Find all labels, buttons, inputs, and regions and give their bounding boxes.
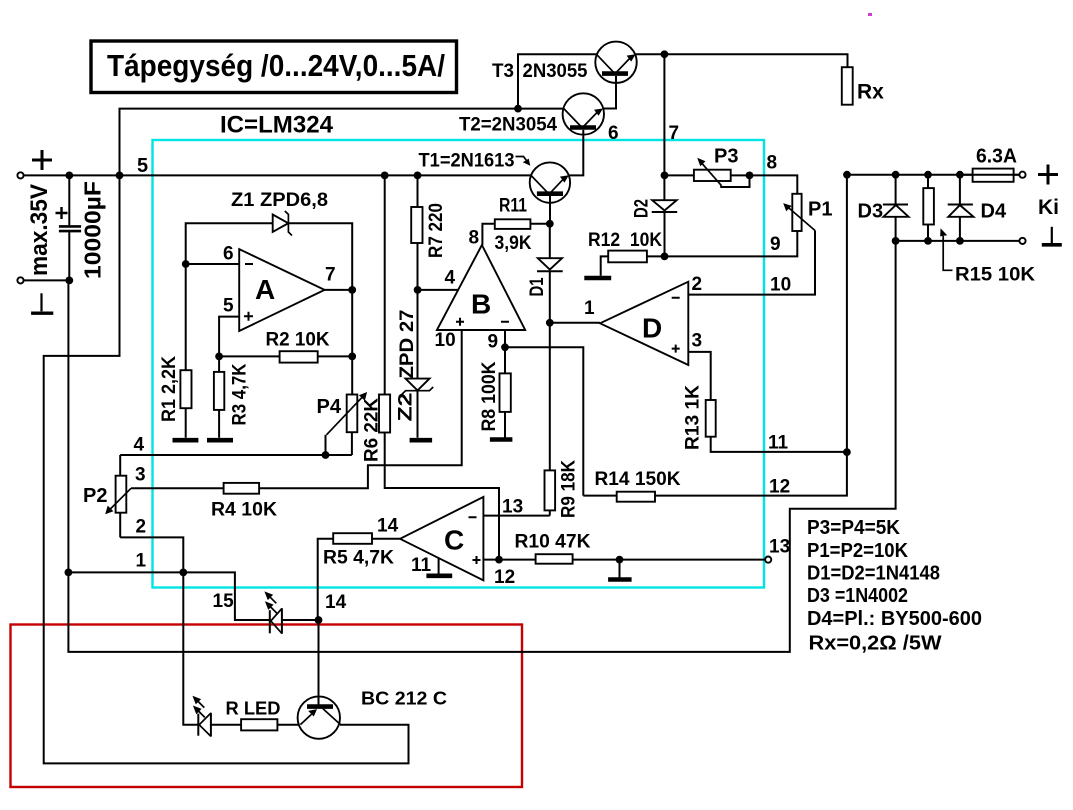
svg-text:R14 150K: R14 150K (595, 469, 681, 490)
svg-text:R1 2,2K: R1 2,2K (159, 356, 180, 422)
resistor R15 10K (923, 188, 934, 224)
svg-text:2: 2 (136, 517, 147, 538)
resistor R1 2,2K (180, 370, 191, 408)
svg-text:P1: P1 (808, 199, 832, 221)
svg-text:Tápegység /0...24V,0...5A/: Tápegység /0...24V,0...5A/ (107, 48, 445, 83)
diode D1 (538, 258, 562, 269)
wire: P2 bottom lead (119, 513, 121, 538)
svg-text:R11: R11 (499, 196, 527, 217)
svg-text:13: 13 (502, 497, 523, 518)
svg-text:5: 5 (223, 296, 234, 317)
junction (381, 172, 389, 180)
svg-text:T3: T3 (492, 61, 514, 82)
svg-text:R10 47K: R10 47K (515, 532, 591, 553)
svg-text:C: C (444, 525, 464, 556)
svg-text:R8 100K: R8 100K (479, 361, 500, 431)
wire: D3 top lead (895, 175, 897, 205)
wire: op-amp C output pin 14 through R5 down to node 14 (318, 539, 400, 620)
wire: pin 9 net from op-amp B minus input down to R14 line (505, 330, 583, 496)
svg-text:Z1 ZPD6,8: Z1 ZPD6,8 (231, 190, 328, 211)
svg-text:R15 10K: R15 10K (955, 265, 1035, 286)
resistor R10 47K (536, 554, 573, 564)
ground bar R10 (608, 577, 632, 582)
potentiometer P4 body (347, 395, 358, 433)
wire: R11 left lead to op-amp B output pin 8 (482, 224, 494, 245)
svg-text:D4: D4 (981, 201, 1007, 223)
fuse 6.3A (973, 169, 1014, 182)
junction (892, 237, 900, 245)
svg-text:P3: P3 (714, 146, 738, 168)
LED D6 (R LED branch) (197, 714, 199, 736)
transistor T3 2N3055 (595, 42, 636, 83)
output + symbol (1038, 165, 1058, 185)
input - terminal ground (40, 293, 42, 311)
svg-text:R6 22K: R6 22K (362, 398, 383, 462)
svg-text:8: 8 (469, 228, 480, 249)
svg-text:12: 12 (494, 567, 515, 588)
wire: Z1 feedback loop (186, 223, 353, 290)
wire: D4 leads (959, 175, 961, 241)
diode D2 (652, 200, 677, 210)
ground bar R3 (207, 438, 233, 443)
svg-text:7: 7 (325, 265, 336, 286)
svg-text:R3 4,7K: R3 4,7K (230, 363, 251, 425)
wire: pin1 node down through R9 to pin13 line (549, 323, 551, 516)
transistor BC 212 C (298, 696, 340, 738)
wire: R10 ground stub (619, 560, 621, 578)
LED D5 arrows (268, 595, 276, 603)
wire: capacitor column (68, 175, 70, 280)
junction (843, 448, 851, 456)
junction (182, 260, 190, 268)
wire: R LED to BC212 emitter (277, 724, 299, 726)
junction (546, 220, 554, 228)
resistor R2 10K (280, 351, 318, 362)
wire: op-amp A output pin 7 to P4 column (325, 290, 353, 395)
wire: R11 right lead (531, 223, 550, 225)
output ground symbol (1051, 227, 1053, 244)
svg-text:7: 7 (669, 123, 680, 144)
svg-text:R9 18K: R9 18K (559, 460, 580, 518)
junction (514, 105, 522, 113)
wire: P1 bottom lead, pin9 line to R12/D2 node (647, 231, 797, 256)
wire: R1 leads (185, 264, 187, 438)
junction (546, 319, 554, 327)
svg-text:R13 1K: R13 1K (683, 385, 704, 450)
svg-text:6: 6 (608, 123, 619, 144)
svg-text:Z2: Z2 (396, 393, 417, 422)
svg-text:3: 3 (135, 465, 146, 486)
junction (616, 556, 624, 564)
svg-text:2N3055: 2N3055 (523, 61, 588, 82)
wire: P3 wiper hook (721, 175, 749, 187)
junction (215, 353, 223, 361)
wire: pin 2 line from P2 bottom down to LED row (120, 537, 198, 724)
R15 leader arrow (943, 236, 952, 270)
junction (179, 569, 187, 577)
wire: R8 leads (504, 347, 506, 437)
transistor T1 2N1613 (530, 162, 570, 202)
junction (348, 286, 356, 294)
wire: T3 base riser and collector rail to Rx (518, 54, 848, 108)
op-amp B (437, 245, 525, 330)
wire: P3 left lead (665, 174, 694, 176)
zener Z1 ZPD6,8 (273, 215, 289, 232)
wire: pin 13 line from op-amp C (483, 515, 549, 517)
svg-text:9: 9 (488, 332, 499, 353)
wire: op-amp A minus input pin 6 (186, 263, 240, 265)
svg-text:1: 1 (136, 551, 147, 572)
wire: pin 4 line (120, 454, 352, 456)
ground bar pin 11 (426, 573, 452, 578)
resistor R11 3,9K (495, 219, 531, 229)
wire: T3 emitter to T2 collector (603, 74, 616, 109)
potentiometer P3 body (694, 170, 731, 181)
junction (501, 343, 509, 351)
current-limit / LED enclosure box (red) (11, 625, 523, 788)
junction (65, 569, 73, 577)
svg-text:1: 1 (584, 298, 595, 319)
wire: main positive bus from input through T1 base up to T2 emitter (22, 128, 583, 175)
resistor R8 100K (500, 373, 511, 412)
svg-text:11: 11 (768, 433, 789, 454)
wire: R2 line (219, 355, 352, 357)
svg-text:B: B (471, 289, 491, 320)
wire: ground return loop D3 bottom to capacitor negative (68, 217, 895, 652)
svg-text:Rx: Rx (857, 81, 884, 104)
LED D6 arrows (196, 700, 204, 708)
wire: pin12 line through R14 to output sense column (583, 175, 847, 496)
stray red mark (868, 13, 872, 16)
wire: op-amp C pin 11 ground stub (438, 559, 440, 574)
junction (315, 616, 323, 624)
resistor R LED (241, 719, 277, 730)
resistor R3 4,7K (214, 372, 224, 410)
potentiometer P1 body (792, 194, 801, 231)
LED D5 (opto path) (269, 610, 271, 633)
pin 13 terminal (765, 557, 771, 563)
svg-text:D3 =1N4002: D3 =1N4002 (807, 584, 908, 607)
wire: op-amp A plus input pin 5 (219, 317, 239, 357)
ground bar R8 (490, 437, 513, 442)
svg-text:P1=P2=10K: P1=P2=10K (807, 539, 908, 562)
zener Z2 ZPD27 (406, 379, 430, 391)
wire: P3 right lead (731, 174, 750, 176)
ground bar R12 (584, 276, 611, 281)
svg-text:R4 10K: R4 10K (211, 500, 277, 521)
resistor R12 10K (608, 251, 647, 263)
svg-text:3: 3 (692, 331, 703, 352)
input - terminal (17, 277, 23, 283)
junction (414, 286, 422, 294)
svg-text:5: 5 (137, 155, 148, 177)
svg-text:8: 8 (767, 153, 778, 174)
svg-text:ZPD 27: ZPD 27 (397, 310, 418, 379)
svg-text:11: 11 (411, 555, 432, 576)
svg-text:P3=P4=5K: P3=P4=5K (807, 516, 900, 539)
svg-text:D1=D2=1N4148: D1=D2=1N4148 (807, 562, 940, 585)
svg-text:D2: D2 (632, 199, 653, 218)
wire: D1 bottom to pin1 node and op-amp D input (550, 272, 600, 323)
capacitor 10000uF plates (59, 225, 81, 228)
svg-text:6.3A: 6.3A (976, 146, 1017, 168)
svg-text:A: A (255, 274, 275, 305)
junction (661, 50, 669, 58)
resistor R5 4,7K (333, 533, 372, 544)
svg-text:3,9K: 3,9K (495, 233, 532, 254)
diode D4 BY500-600 (948, 204, 973, 206)
junction (843, 171, 851, 179)
svg-text:9: 9 (770, 234, 781, 255)
wire: left rail down to bottom rail and BC212 collector (44, 175, 409, 763)
wire: op-amp D minus input pin2 to P1 wiper (688, 231, 815, 295)
resistor R6 22K (379, 395, 390, 433)
junction (956, 171, 964, 179)
potentiometer P1 wiper (786, 206, 815, 231)
wire: pin 4 power stub to op-amp B edge (418, 289, 458, 291)
resistor R14 150K (617, 492, 655, 502)
wire: pin 12 line from op-amp C through R10 to terminal 13 (483, 559, 765, 561)
svg-text:12: 12 (769, 477, 790, 498)
svg-text:10: 10 (770, 275, 791, 296)
wire: node 7 column through D2 (663, 54, 665, 256)
wire: D6 to R LED (211, 724, 241, 726)
junction (495, 556, 503, 564)
junction (65, 277, 73, 285)
svg-text:R5 4,7K: R5 4,7K (323, 548, 394, 569)
wire: P2 top lead (119, 455, 121, 476)
wire: D1 top lead (549, 224, 551, 258)
svg-text:IC=LM324: IC=LM324 (220, 112, 334, 139)
svg-text:14: 14 (377, 516, 399, 537)
svg-text:2: 2 (692, 274, 703, 295)
junction (892, 171, 900, 179)
potentiometer P2 wiper (109, 488, 132, 511)
title box (91, 41, 457, 93)
svg-text:R12 10K: R12 10K (588, 230, 662, 251)
wire: R3 leads (218, 356, 220, 437)
resistor R4 10K (224, 483, 260, 494)
junction (924, 171, 932, 179)
svg-text:T1=2N1613: T1=2N1613 (419, 151, 515, 172)
resistor R7 220 (411, 207, 422, 243)
svg-text:BC 212 C: BC 212 C (361, 689, 447, 709)
svg-text:R2 10K: R2 10K (266, 330, 330, 351)
svg-text:6: 6 (223, 244, 234, 265)
junction (661, 253, 669, 261)
svg-text:P2: P2 (83, 485, 107, 507)
wire: P4 wiper drop to pin4 line (325, 435, 327, 455)
potentiometer P2 body (116, 476, 127, 513)
junction (322, 451, 330, 459)
junction (116, 172, 124, 180)
wire: D5 to node 14 (282, 619, 319, 621)
LM324 IC boundary box (cyan) (153, 140, 765, 588)
svg-text:Rx=0,2Ω /5W: Rx=0,2Ω /5W (809, 632, 943, 655)
wire: R7 column with zener Z2 to ground (417, 175, 419, 437)
junction (348, 353, 356, 361)
resistor R9 18K (545, 470, 556, 510)
svg-text:13: 13 (769, 537, 790, 558)
T1 label arrow (516, 157, 528, 163)
ground bar Z2 (410, 438, 433, 443)
wire: pin 3 line through R4 up to op-amp B plus input pin 10 (131, 330, 462, 488)
resistor Rx (842, 67, 853, 105)
wire: P1 top lead from pin8 line (750, 175, 798, 193)
wire: output bottom rail to - terminal (896, 240, 1023, 242)
output + terminal (1019, 172, 1025, 178)
diode D3 1N4002 (883, 204, 908, 206)
wire: R15 leads (927, 175, 929, 241)
svg-text:4: 4 (134, 435, 145, 456)
wire: T1 emitter down to R11/D1 node (549, 195, 551, 224)
transistor T2 2N3054 (563, 93, 604, 134)
junction (661, 172, 669, 180)
op-amp D (600, 282, 688, 365)
svg-text:D: D (642, 313, 662, 344)
junction (746, 172, 754, 180)
junction (956, 237, 964, 245)
svg-text:P4: P4 (317, 396, 342, 418)
potentiometer P4 wiper (327, 395, 365, 435)
svg-text:max.35V: max.35V (26, 184, 53, 276)
wire: top rail to T2 base (120, 109, 571, 176)
op-amp C (400, 497, 483, 580)
ground bar R1 (173, 438, 199, 443)
output - terminal (1019, 238, 1025, 244)
input + terminal (17, 172, 23, 178)
wire: R12 ground lead (601, 256, 609, 275)
svg-text:Ki: Ki (1038, 196, 1059, 219)
svg-text:D3: D3 (858, 201, 884, 223)
wire: output top rail with fuse to + terminal (847, 174, 1023, 176)
wire: pin 1 line to LED D5 (68, 572, 269, 620)
wire: pin 11 line from R13 (688, 352, 847, 452)
svg-text:10: 10 (435, 330, 456, 351)
svg-text:4: 4 (445, 268, 456, 289)
svg-text:T2=2N3054: T2=2N3054 (459, 115, 557, 136)
svg-text:D1: D1 (527, 277, 548, 296)
input + symbol (32, 150, 52, 170)
wire: R6 column from bus to pin12 node (385, 175, 499, 559)
resistor R13 1K (706, 400, 716, 437)
svg-text:14: 14 (325, 592, 347, 613)
wire: P4 bottom lead (351, 432, 353, 455)
junction (414, 172, 422, 180)
wire: input minus lead (22, 279, 69, 281)
svg-text:R7 220: R7 220 (426, 203, 447, 258)
svg-text:D4=Pl.: BY500-600: D4=Pl.: BY500-600 (807, 607, 982, 630)
junction (924, 237, 932, 245)
svg-text:10000µF: 10000µF (80, 181, 106, 279)
op-amp A (239, 249, 324, 331)
potentiometer P3 wiper (700, 161, 721, 185)
capacitor + mark (56, 207, 68, 219)
junction (65, 172, 73, 180)
svg-text:R LED: R LED (226, 699, 281, 719)
svg-text:15: 15 (213, 591, 235, 612)
wire: node 14 down to BC212 base (318, 620, 320, 705)
